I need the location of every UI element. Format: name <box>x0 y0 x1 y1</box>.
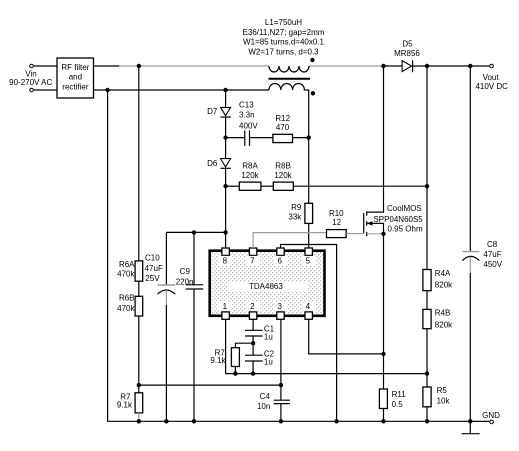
node pin3 tap rail <box>279 383 283 387</box>
svg-text:Vout: Vout <box>483 73 500 82</box>
wire return column down <box>108 90 471 421</box>
block RF filter and rectifier <box>57 58 94 98</box>
pin 6 <box>277 248 284 255</box>
wire RF bottom output to W2 <box>94 89 270 91</box>
svg-text:470k: 470k <box>117 304 135 313</box>
resistor R6B <box>135 296 143 316</box>
node C9 ground <box>192 419 196 423</box>
node R7 mid bottom <box>233 371 237 375</box>
node CS row <box>381 352 385 356</box>
svg-text:GND: GND <box>482 411 500 420</box>
svg-text:D7: D7 <box>207 107 218 116</box>
resistor R7 mid branch <box>235 343 253 348</box>
svg-text:R4A: R4A <box>435 269 451 278</box>
wire R6B to tap node <box>138 316 140 393</box>
node source <box>381 232 385 236</box>
terminal GND <box>490 420 494 424</box>
terminal Vout <box>490 64 494 68</box>
node Vcc row <box>223 230 227 234</box>
node pin6 ground <box>334 419 338 423</box>
wire top rail from RF filter <box>94 65 121 67</box>
svg-text:0.95 Ohm: 0.95 Ohm <box>388 225 423 234</box>
transistor Q1 channel segments <box>366 211 368 215</box>
wire tap rail to pin3 column <box>139 384 281 386</box>
ground symbol <box>469 421 471 433</box>
node C9 top <box>192 230 196 234</box>
svg-text:1: 1 <box>223 302 228 311</box>
svg-text:220n: 220n <box>176 278 194 287</box>
svg-text:400V: 400V <box>239 121 258 130</box>
svg-text:R8B: R8B <box>275 162 291 171</box>
svg-text:25V: 25V <box>145 274 160 283</box>
wire R8A to R8B <box>261 185 273 187</box>
svg-text:rectifier: rectifier <box>62 82 89 91</box>
pin 8 <box>222 248 229 255</box>
svg-text:R9: R9 <box>291 203 302 212</box>
capacitor C10 electrolytic <box>158 284 176 286</box>
svg-text:1u: 1u <box>264 357 273 366</box>
svg-text:SPP04N60S5: SPP04N60S5 <box>373 215 423 224</box>
capacitor C2 <box>245 354 263 356</box>
node C8 column top <box>468 64 472 68</box>
wire D7 to C13 node <box>225 117 227 159</box>
svg-text:D6: D6 <box>207 159 218 168</box>
resistor R8B <box>273 182 293 190</box>
svg-text:3.3n: 3.3n <box>239 111 255 120</box>
node R5 top <box>425 371 429 375</box>
node ground rail C8 <box>468 419 472 423</box>
wire source column down <box>383 234 385 389</box>
pin 4 <box>305 312 312 319</box>
transistor Q1 body lead with arrow <box>368 223 384 233</box>
node R8B row R4A column <box>425 184 429 188</box>
svg-text:120k: 120k <box>274 171 292 180</box>
svg-text:C8: C8 <box>487 240 498 249</box>
wire D6 to pin 8 <box>225 168 227 248</box>
resistor R11 <box>379 389 387 409</box>
wire sense divider column top <box>138 66 140 261</box>
svg-text:C13: C13 <box>239 101 254 110</box>
node R11 ground <box>381 419 385 423</box>
svg-text:820k: 820k <box>435 320 453 329</box>
wire R5 ground <box>426 407 428 422</box>
svg-text:W2=17 turns, d=0.3: W2=17 turns, d=0.3 <box>248 47 319 56</box>
pin 3 <box>277 312 284 319</box>
svg-text:470: 470 <box>276 123 290 132</box>
node R7 ground <box>137 419 141 423</box>
svg-text:0.5: 0.5 <box>392 400 404 409</box>
wire R11 to ground <box>383 409 385 422</box>
node drain column top <box>381 64 385 68</box>
wire Vcc row <box>166 231 225 233</box>
svg-text:9.1k: 9.1k <box>210 356 226 365</box>
svg-text:R6B: R6B <box>119 294 135 303</box>
svg-text:W1=85 turns,d=40x0.1: W1=85 turns,d=40x0.1 <box>243 38 324 47</box>
wire top rail drain column to D5 <box>384 65 403 67</box>
capacitor C1 <box>245 329 263 331</box>
terminal Vin bottom <box>30 88 34 92</box>
svg-text:MR856: MR856 <box>394 49 420 58</box>
svg-text:R5: R5 <box>437 386 448 395</box>
wire to GND terminal <box>470 420 489 422</box>
wire R7 to ground rail <box>138 413 140 421</box>
node R12 ZCD column <box>307 135 311 139</box>
node C1 C2 R7 <box>251 341 255 345</box>
wire C1 to C2 <box>252 336 254 355</box>
pin 5 <box>305 248 312 255</box>
svg-text:RF filter: RF filter <box>61 63 89 72</box>
node R4A column top <box>425 64 429 68</box>
op-amp U1 TDA4863 body <box>210 251 325 316</box>
svg-text:10k: 10k <box>437 396 451 405</box>
svg-text:C9: C9 <box>180 267 191 276</box>
wire R6A to R6B <box>138 281 140 296</box>
svg-text:7: 7 <box>250 257 255 266</box>
svg-text:12: 12 <box>332 218 341 227</box>
wire R4A column <box>426 66 428 270</box>
svg-text:33k: 33k <box>288 213 302 222</box>
node return column <box>105 88 109 92</box>
svg-text:5: 5 <box>306 257 311 266</box>
svg-text:TDA4863: TDA4863 <box>249 282 283 291</box>
resistor R7 lower left <box>135 393 143 413</box>
pin 7 <box>249 248 256 255</box>
capacitor C4 <box>274 399 290 401</box>
wire C13 to R12 <box>250 137 273 139</box>
wire top rail D5 to Vout <box>413 65 490 67</box>
resistor R10 <box>327 230 347 238</box>
diode D6 <box>221 159 231 167</box>
inductor L1 core <box>269 78 311 80</box>
wire pin 1 row <box>226 319 427 373</box>
node D7 column top <box>223 88 227 92</box>
wire pin 7 gate drive gray <box>253 233 326 248</box>
diode D5 MR856 <box>402 61 412 72</box>
resistor R4A <box>423 270 431 291</box>
transistor Q1 drain lead <box>367 66 384 212</box>
resistor R8A <box>239 182 261 190</box>
wire D7 column <box>225 90 227 107</box>
wire R8A row left <box>226 185 240 187</box>
svg-text:450V: 450V <box>483 260 502 269</box>
svg-text:120k: 120k <box>241 171 259 180</box>
wire pin 4 current sense <box>309 319 384 354</box>
wire Vin bottom to RF filter <box>34 89 57 91</box>
svg-text:L1=750uH: L1=750uH <box>265 18 302 27</box>
svg-text:1u: 1u <box>264 332 273 341</box>
pin 1 <box>222 312 229 319</box>
svg-text:470k: 470k <box>117 270 135 279</box>
svg-text:R8A: R8A <box>242 162 258 171</box>
svg-text:4: 4 <box>306 302 311 311</box>
svg-text:410V DC: 410V DC <box>475 82 508 91</box>
capacitor C13 <box>244 130 246 146</box>
resistor R9 <box>305 203 313 223</box>
svg-text:820k: 820k <box>435 280 453 289</box>
diode D7 <box>221 107 231 115</box>
resistor R12 <box>273 134 293 142</box>
node C13 row <box>223 135 227 139</box>
wire R10 to gate <box>346 233 363 235</box>
capacitor C8 electrolytic <box>463 251 480 253</box>
svg-text:9.1k: 9.1k <box>117 401 133 410</box>
wire top rail gray segment to L1 <box>119 65 269 67</box>
node C2 bottom <box>251 371 255 375</box>
wire Vin top to RF filter <box>34 65 57 67</box>
svg-text:C10: C10 <box>145 253 160 262</box>
svg-text:and: and <box>69 73 82 82</box>
svg-text:6: 6 <box>277 257 282 266</box>
svg-text:R10: R10 <box>329 209 344 218</box>
svg-text:2: 2 <box>250 302 255 311</box>
resistor R5 <box>423 387 431 407</box>
inductor L1 winding W1 <box>269 66 309 72</box>
svg-text:R12: R12 <box>275 114 290 123</box>
node R8A row <box>223 184 227 188</box>
phasing dot W2 <box>311 91 315 95</box>
wire top rail gray segment L1 to drain column <box>309 65 384 67</box>
svg-text:CoolMOS: CoolMOS <box>387 204 422 213</box>
transistor Q1 source lead gray <box>367 233 384 235</box>
svg-text:8: 8 <box>223 257 228 266</box>
wire R4B to FB node <box>426 329 428 387</box>
capacitor C9 <box>193 232 195 284</box>
wire R8B row to R4A column <box>293 185 427 187</box>
svg-text:C4: C4 <box>260 392 271 401</box>
node divider tap <box>137 383 141 387</box>
resistor R4B <box>423 309 431 328</box>
wire ZCD column W2 to R9 <box>308 90 310 203</box>
wire C2 bottom <box>252 361 254 374</box>
svg-text:R4B: R4B <box>435 309 451 318</box>
phasing dot W1 <box>310 58 314 62</box>
wire R9 to pin 5 <box>308 223 310 248</box>
svg-text:47uF: 47uF <box>145 264 163 273</box>
inductor L1 winding W2 <box>269 84 309 91</box>
svg-text:D5: D5 <box>402 40 413 49</box>
svg-text:R11: R11 <box>392 390 407 399</box>
node R5 ground <box>425 419 429 423</box>
capacitor C10 wire top <box>165 232 167 285</box>
wire pin 2 to C1 <box>252 319 254 330</box>
wire C8 column <box>469 66 471 252</box>
node C4 ground <box>279 419 283 423</box>
wire pin 3 column <box>280 319 282 400</box>
resistor R6A <box>135 261 143 281</box>
terminal Vin top <box>30 64 34 68</box>
wire pin 6 to ground column <box>281 245 337 422</box>
svg-text:R6A: R6A <box>119 260 135 269</box>
svg-text:47uF: 47uF <box>483 250 501 259</box>
pin 2 <box>249 312 256 319</box>
node C10 ground <box>164 419 168 423</box>
transistor Q1 CoolMOS gate bar <box>363 213 365 233</box>
svg-text:90-270V AC: 90-270V AC <box>9 78 52 87</box>
wire R4A to R4B <box>426 291 428 310</box>
svg-text:E36/11,N27; gap=2mm: E36/11,N27; gap=2mm <box>243 28 325 37</box>
wire C13 row left <box>226 137 245 139</box>
svg-text:10n: 10n <box>257 402 270 411</box>
svg-text:3: 3 <box>277 302 282 311</box>
wire R12 to ZCD column <box>293 137 309 139</box>
node top rail / R6A column <box>137 64 141 68</box>
